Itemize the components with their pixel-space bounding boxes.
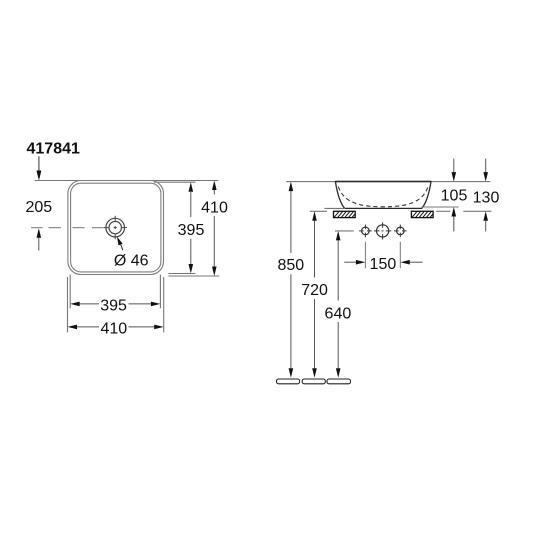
drain outer circle (106, 218, 125, 237)
svg-text:640: 640 (325, 305, 352, 322)
dimension 105 (lower tail) (452, 207, 457, 231)
left mounting pad (hatched) (334, 211, 356, 217)
floor tile 1 (277, 379, 300, 384)
svg-text:150: 150 (370, 256, 397, 273)
dimension 640 (325, 231, 352, 378)
plan view: bottom outer extension line (right side) (168, 275, 219, 277)
leader arrow for drain diameter (117, 236, 123, 250)
svg-text:410: 410 (201, 199, 228, 216)
drain crosshair ticks (103, 216, 127, 240)
dimension 395 (right vertical, inner height) (178, 182, 205, 273)
drain inner circle (109, 221, 121, 233)
svg-text:850: 850 (277, 257, 304, 274)
plan view: left inner extension line (down from basin) (69, 275, 71, 309)
basin inner surface (dashed) (338, 187, 428, 207)
label Ø 46 (114, 252, 149, 269)
dimension 410 (bottom horizontal, outer width) (68, 320, 164, 337)
floor tile 3 (327, 379, 351, 384)
extension line for 720 (counter level) (310, 210, 327, 212)
extension line for 640 (holes level) (335, 230, 354, 232)
svg-text:105: 105 (441, 188, 468, 205)
svg-text:205: 205 (25, 199, 52, 216)
plan view: inner top extension line (154, 181, 195, 183)
counter line left of basin (324, 207, 345, 209)
dimension 130 (lower tail) (483, 211, 488, 231)
extension lines for 150 (365, 242, 400, 268)
plan view: left outer extension line (down from basin) (67, 277, 69, 332)
extension line for 130 (pad bottom level) (463, 210, 491, 212)
basin side profile (335, 182, 431, 209)
dimension 410 (right vertical, outer height) (201, 181, 228, 277)
label 105 (441, 188, 468, 205)
svg-text:Ø 46: Ø 46 (114, 252, 149, 269)
side view: top extension line (rim level) (286, 181, 490, 183)
plan view: right outer extension line (down from basin) (163, 277, 165, 332)
svg-text:395: 395 (100, 297, 127, 314)
dimension 720 (301, 211, 328, 377)
dimension 150 (344, 256, 422, 273)
short pad-level line right of pad (436, 210, 450, 212)
floor tile 2 (302, 379, 325, 384)
plan view: top extension line (outer top tangent) (35, 180, 219, 182)
dimension 130 (upper tail) (483, 159, 488, 182)
dimension 395 (bottom horizontal, inner width) (70, 297, 160, 314)
dimension 205 (left vertical) (25, 156, 52, 250)
svg-text:410: 410 (100, 320, 127, 337)
dimension 105 (upper tail) (452, 159, 457, 182)
svg-text:417841: 417841 (27, 140, 80, 157)
left fixing hole (359, 225, 372, 238)
svg-text:130: 130 (473, 190, 500, 207)
dimension 850 (277, 182, 304, 378)
basin inner outline (71, 183, 161, 272)
basin outer outline (rounded square) (68, 181, 164, 275)
right fixing hole (394, 225, 407, 238)
right mounting pad (hatched) (411, 211, 433, 217)
counter line right of basin (105 reference) (422, 206, 459, 208)
article number 417841 (27, 140, 80, 157)
plan view: bottom inner extension line (right side) (168, 273, 195, 275)
drain centre line (horizontal dash-dot) (31, 227, 103, 229)
svg-text:395: 395 (178, 222, 205, 239)
leader arrow from article number (37, 157, 42, 181)
label 130 (473, 190, 500, 207)
centre tap hole (374, 222, 391, 239)
plan view: right inner extension line (down from basin) (159, 275, 161, 309)
svg-text:720: 720 (301, 282, 328, 299)
